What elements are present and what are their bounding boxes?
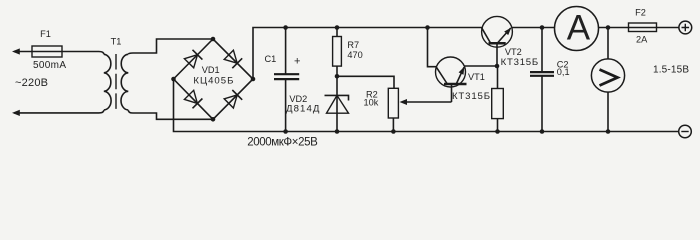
svg-text:+: + (294, 56, 300, 68)
svg-text:T1: T1 (111, 37, 122, 47)
svg-text:F2: F2 (635, 8, 646, 18)
svg-text:VD1: VD1 (202, 65, 220, 75)
svg-text:0,1: 0,1 (557, 67, 570, 77)
svg-text:КТ315Б: КТ315Б (452, 91, 490, 102)
svg-text:10k: 10k (364, 98, 379, 108)
svg-text:R7: R7 (347, 40, 359, 50)
svg-text:470: 470 (347, 50, 362, 60)
svg-text:2A: 2A (636, 35, 648, 45)
svg-text:VT1: VT1 (468, 72, 485, 82)
svg-text:VT2: VT2 (505, 47, 522, 57)
svg-text:Д814Д: Д814Д (286, 103, 320, 114)
svg-text:1.5-15В: 1.5-15В (653, 65, 689, 76)
svg-text:КЦ405Б: КЦ405Б (193, 75, 233, 86)
svg-text:A: A (567, 9, 591, 48)
svg-text:F1: F1 (40, 29, 51, 39)
svg-text:2000мкФ×25В: 2000мкФ×25В (247, 137, 318, 149)
svg-text:КТ315Б: КТ315Б (501, 57, 539, 68)
svg-text:C1: C1 (265, 54, 277, 64)
svg-text:500mA: 500mA (33, 60, 66, 71)
svg-text:~220В: ~220В (15, 77, 48, 89)
